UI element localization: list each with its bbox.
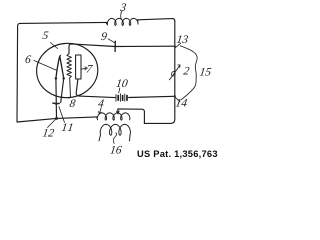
tick 14 [175,97,180,102]
grid zigzag inside tube [67,54,72,78]
arrow 2 with loop [169,66,179,80]
node: right wire / cap wire junction [174,45,176,47]
svg-text:16: 16 [109,144,122,156]
label pointer 5 [51,43,58,49]
node: right wire junction at 14 [174,95,176,97]
transformer T4 secondary (16) [99,124,130,140]
svg-text:7: 7 [85,63,94,75]
label pointer 6 [34,61,57,71]
label pointer 4 [100,108,102,114]
label pointer 11 [59,107,65,123]
wire left side: top-left corner down to bottom wire [17,23,97,122]
label pointer 12 [48,119,57,128]
svg-text:10: 10 [115,78,128,90]
tube envelope V (5) [34,41,100,100]
plate rectangle (7) [76,55,81,79]
svg-text:6: 6 [24,54,32,66]
svg-text:13: 13 [176,34,189,46]
svg-text:12: 12 [42,128,55,140]
wire grid lead up and capacitor line to right wire [69,44,175,54]
svg-text:8: 8 [69,98,77,110]
battery B11 crossbar [53,102,60,104]
wire top right after coil [138,19,175,21]
svg-text:4: 4 [97,98,105,110]
wire right vertical [144,21,175,123]
transformer T4 primary [97,113,130,120]
svg-text:15: 15 [199,67,212,79]
svg-text:5: 5 [42,30,50,42]
wire tap arrow to top-right path [117,109,119,113]
svg-text:9: 9 [100,31,108,43]
wire plate lead down and to battery 10 [76,79,115,98]
grid bottom stub ending near 8 [68,78,70,98]
svg-text:2: 2 [183,66,191,78]
antenna brace 15 [180,46,197,100]
label pointer 9 [108,39,115,43]
svg-text:14: 14 [175,98,188,110]
filament inverted V (6) [56,55,61,78]
node: bottom wire junction dot [55,117,58,120]
wire filament left lead down to bottom [55,78,58,117]
svg-text:US Pat. 1,356,763: US Pat. 1,356,763 [137,149,218,159]
inductor L3 [106,18,138,25]
wire battery 10 to right wire [129,96,175,97]
node: filament leg dots [55,77,58,80]
capacitor C9 tick [114,41,116,51]
svg-text:11: 11 [61,122,76,134]
svg-text:3: 3 [118,2,127,14]
wire filament right lead [61,78,64,102]
wire top horizontal to coil [20,22,108,23]
label pointer 3 [121,11,123,20]
tick 13 [175,43,181,48]
label pointer/arrow 7 [81,67,86,70]
battery 10 [116,94,127,102]
label pointer 10 [119,88,120,93]
label pointer 16 [113,133,116,144]
